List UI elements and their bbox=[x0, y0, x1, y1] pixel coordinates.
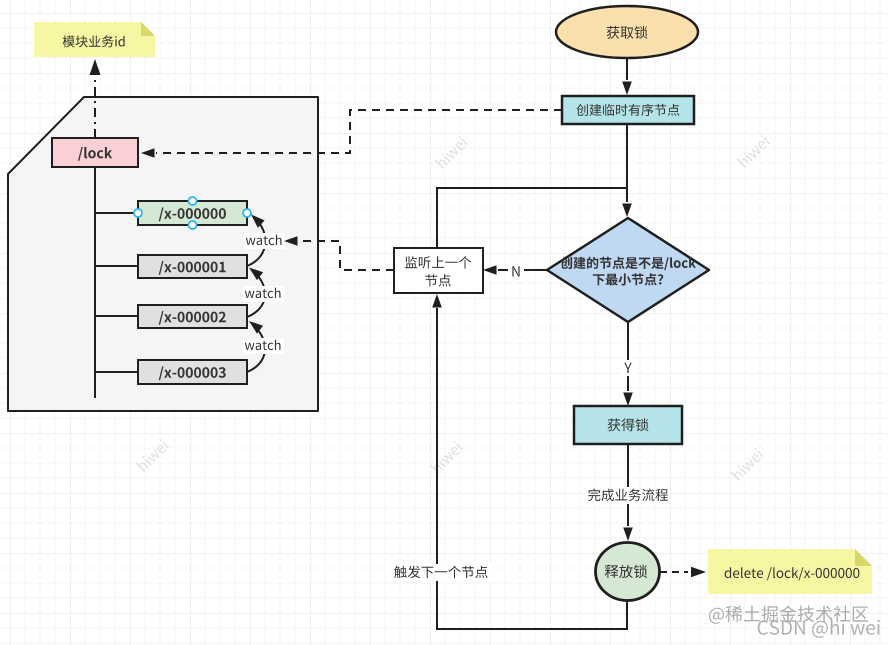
wire 获取锁 to 创建临时有序节点 bbox=[626, 58, 628, 80]
dashed wire create-node to /lock bbox=[156, 110, 562, 153]
branch wire to /x-000001 bbox=[95, 265, 138, 267]
watch curve 1 bbox=[247, 217, 265, 266]
wire N diamond to listen box bbox=[498, 269, 547, 271]
node /x-000000 bbox=[138, 201, 247, 225]
wire 创建临时有序节点 to diamond bbox=[626, 124, 628, 202]
label 完成业务流程 bbox=[586, 487, 670, 504]
branch wire to /x-000002 bbox=[95, 315, 138, 317]
terminal circle 释放锁 bbox=[596, 543, 660, 601]
note delete /lock/x-000000 bbox=[708, 549, 872, 594]
watermark hiwei 5 bbox=[430, 441, 463, 474]
terminal ellipse 获取锁 bbox=[556, 6, 698, 58]
credit CSDN @hi wei bbox=[758, 620, 880, 638]
node /lock bbox=[52, 138, 138, 167]
process box 监听上一个节点 bbox=[394, 248, 483, 293]
watch curve 2 bbox=[247, 270, 265, 317]
label watch 2 bbox=[243, 286, 284, 302]
watermark hiwei 2 bbox=[435, 136, 468, 169]
watch curve 3 bbox=[247, 324, 265, 372]
watermark hiwei 4 bbox=[136, 439, 169, 472]
label watch 3 bbox=[243, 338, 284, 354]
node /x-000002 bbox=[138, 305, 247, 328]
credit @稀土掘金技术社区 bbox=[709, 605, 868, 623]
branch wire to /x-000003 bbox=[95, 371, 138, 373]
branch wire to /x-000000 bbox=[95, 212, 138, 214]
wire /lock to trunk bbox=[94, 167, 96, 170]
sticky note 模块业务id bbox=[34, 22, 155, 57]
dashed wire listen to watch bbox=[298, 241, 394, 270]
watermark hiwei 6 bbox=[731, 448, 764, 481]
feedback wire listen-top to diamond-wire bbox=[437, 188, 627, 248]
wire 获得锁 to 释放锁 bbox=[627, 444, 629, 526]
loop wire 释放锁 to 监听上一个节点 bbox=[437, 308, 627, 629]
tree trunk wire bbox=[94, 167, 96, 398]
watermark hiwei 3 bbox=[737, 135, 770, 168]
label 触发下一个节点 bbox=[392, 564, 491, 581]
label watch 1 bbox=[244, 233, 285, 249]
watermark hiwei 1 bbox=[133, 135, 166, 168]
node /x-000001 bbox=[138, 255, 247, 278]
selection handle left bbox=[134, 209, 142, 217]
process box 创建临时有序节点 bbox=[562, 96, 694, 124]
container polygon bbox=[8, 97, 318, 411]
label N bbox=[508, 262, 524, 278]
selection handle bottom bbox=[189, 221, 197, 229]
decision diamond 创建的节点是不是/lock下最小节点? bbox=[547, 218, 709, 322]
process box 获得锁 bbox=[574, 406, 682, 444]
wire Y diamond to 获得锁 bbox=[627, 322, 629, 391]
dash-dot arrow from /lock to note bbox=[94, 76, 96, 138]
selection handle right bbox=[243, 209, 251, 217]
selection handle top bbox=[189, 197, 197, 205]
dashed wire 释放锁 to delete note bbox=[660, 571, 688, 573]
label Y bbox=[620, 360, 636, 376]
node /x-000003 bbox=[138, 360, 247, 384]
